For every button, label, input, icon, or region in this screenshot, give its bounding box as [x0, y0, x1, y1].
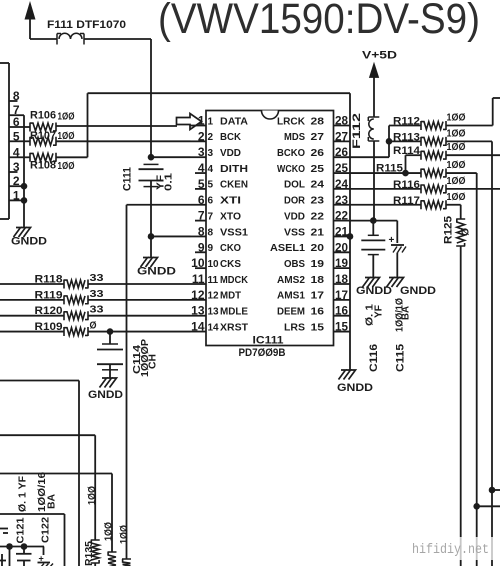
svg-text:R113: R113	[393, 131, 420, 143]
svg-text:3: 3	[198, 145, 205, 159]
svg-text:C116: C116	[368, 344, 380, 372]
svg-text:DEEM: DEEM	[277, 307, 305, 318]
svg-text:GNDD: GNDD	[11, 236, 47, 248]
svg-text:20: 20	[311, 243, 325, 254]
svg-text:XRST: XRST	[220, 322, 248, 333]
svg-text:24: 24	[335, 177, 348, 191]
svg-text:C121: C121	[16, 517, 27, 543]
svg-text:2: 2	[198, 129, 205, 143]
svg-text:16: 16	[335, 304, 348, 318]
svg-text:19: 19	[335, 256, 348, 270]
svg-text:GNDD: GNDD	[88, 389, 123, 401]
svg-text:16: 16	[311, 307, 325, 318]
svg-text:Ø. 1 YF: Ø. 1 YF	[18, 476, 29, 512]
svg-text:(VWV1590:DV-S9): (VWV1590:DV-S9)	[158, 0, 480, 43]
svg-text:14: 14	[208, 322, 220, 333]
svg-text:XTI: XTI	[220, 196, 241, 207]
svg-text:R125: R125	[443, 216, 455, 244]
svg-text:3: 3	[208, 148, 214, 159]
svg-text:WCKO: WCKO	[277, 164, 305, 175]
svg-text:DOL: DOL	[284, 180, 305, 191]
svg-text:27: 27	[335, 129, 348, 143]
svg-text:24: 24	[311, 180, 325, 191]
svg-text:13: 13	[191, 304, 205, 318]
svg-text:2: 2	[208, 132, 214, 143]
svg-text:21: 21	[311, 227, 325, 238]
svg-text:1ØØ: 1ØØ	[447, 160, 466, 171]
svg-text:BA: BA	[401, 306, 412, 320]
svg-text:XTO: XTO	[220, 211, 241, 222]
svg-text:5: 5	[198, 177, 205, 191]
svg-text:BA: BA	[47, 494, 58, 509]
svg-text:OBS: OBS	[284, 259, 305, 270]
svg-text:R108: R108	[30, 160, 56, 172]
svg-text:1ØØ: 1ØØ	[58, 161, 75, 172]
svg-text:27: 27	[311, 132, 325, 143]
svg-text:21: 21	[335, 224, 348, 238]
svg-text:CKS: CKS	[220, 259, 241, 270]
svg-text:25: 25	[311, 164, 325, 175]
svg-text:8: 8	[13, 89, 20, 103]
svg-text:20: 20	[335, 240, 348, 254]
svg-text:R115: R115	[376, 163, 403, 175]
svg-text:R118: R118	[35, 274, 63, 286]
svg-text:CH: CH	[148, 354, 159, 369]
svg-text:6: 6	[198, 193, 205, 207]
svg-text:1ØØ: 1ØØ	[58, 112, 75, 123]
svg-text:1ØØ: 1ØØ	[58, 131, 75, 142]
svg-text:1: 1	[13, 188, 20, 202]
svg-text:YF: YF	[374, 305, 385, 318]
svg-text:DATA: DATA	[220, 116, 248, 127]
svg-text:22: 22	[335, 209, 348, 223]
svg-text:17: 17	[335, 288, 348, 302]
svg-text:2: 2	[13, 174, 20, 188]
svg-text:VDD: VDD	[284, 211, 305, 222]
svg-text:9: 9	[198, 240, 205, 254]
svg-text:Ø: Ø	[90, 321, 97, 332]
svg-text:28: 28	[335, 114, 348, 128]
svg-text:23: 23	[311, 196, 325, 207]
svg-text:0.1: 0.1	[164, 172, 175, 191]
svg-text:BCKO: BCKO	[277, 148, 305, 159]
svg-text:12: 12	[191, 288, 205, 302]
svg-text:AMS1: AMS1	[277, 291, 305, 302]
svg-text:R117: R117	[393, 195, 420, 207]
svg-text:LRCK: LRCK	[277, 116, 306, 127]
svg-text:R116: R116	[393, 179, 420, 191]
svg-text:6: 6	[13, 115, 20, 129]
svg-text:R112: R112	[393, 116, 420, 128]
svg-text:CKEN: CKEN	[220, 180, 248, 191]
svg-text:GNDD: GNDD	[337, 382, 373, 394]
svg-text:DITH: DITH	[220, 164, 248, 175]
svg-text:33: 33	[90, 273, 105, 284]
svg-text:VDD: VDD	[220, 148, 241, 159]
svg-text:5: 5	[208, 180, 214, 191]
svg-text:10: 10	[191, 256, 205, 270]
svg-text:15: 15	[335, 320, 348, 334]
svg-text:1ØØ: 1ØØ	[447, 142, 466, 153]
svg-text:4: 4	[13, 145, 20, 159]
svg-text:5: 5	[13, 129, 20, 143]
svg-text:ASEL1: ASEL1	[270, 243, 305, 254]
svg-text:1ØØ: 1ØØ	[447, 192, 466, 203]
svg-text:33: 33	[90, 289, 105, 300]
svg-text:26: 26	[311, 148, 325, 159]
svg-text:BCK: BCK	[220, 132, 242, 143]
svg-text:MDT: MDT	[220, 291, 241, 302]
svg-text:12: 12	[208, 291, 220, 302]
svg-text:33: 33	[90, 305, 105, 316]
svg-text:3: 3	[13, 160, 20, 174]
svg-text:CKO: CKO	[220, 243, 241, 254]
svg-text:C111: C111	[122, 167, 134, 191]
svg-text:8: 8	[208, 227, 214, 238]
svg-text:10: 10	[208, 259, 220, 270]
svg-text:1ØØ: 1ØØ	[87, 486, 98, 505]
svg-text:VSS: VSS	[284, 227, 305, 238]
svg-text:22: 22	[311, 211, 325, 222]
svg-text:MDLE: MDLE	[220, 307, 248, 318]
svg-text:MDS: MDS	[284, 132, 305, 143]
svg-text:1ØØ: 1ØØ	[119, 525, 130, 544]
svg-text:15: 15	[311, 322, 325, 333]
svg-text:F112: F112	[351, 113, 363, 149]
svg-text:R120: R120	[35, 305, 63, 317]
svg-text:GNDD: GNDD	[400, 285, 436, 297]
svg-text:11: 11	[192, 272, 205, 286]
svg-text:18: 18	[335, 272, 348, 286]
svg-text:13: 13	[208, 307, 220, 318]
svg-text:26: 26	[335, 145, 348, 159]
svg-text:25: 25	[335, 161, 348, 175]
svg-text:V+5D: V+5D	[362, 50, 397, 62]
svg-text:DOR: DOR	[284, 196, 306, 207]
svg-text:19: 19	[311, 259, 325, 270]
svg-text:AMS2: AMS2	[277, 275, 305, 286]
svg-text:7: 7	[198, 209, 205, 223]
svg-text:R109: R109	[35, 321, 63, 333]
svg-text:4: 4	[198, 161, 205, 175]
svg-text:R107: R107	[30, 130, 56, 142]
svg-text:28: 28	[311, 116, 325, 127]
svg-text:MDCK: MDCK	[220, 275, 249, 286]
svg-text:1ØØ: 1ØØ	[447, 113, 466, 124]
svg-text:VSS1: VSS1	[220, 227, 248, 238]
svg-text:IC111: IC111	[253, 335, 284, 347]
svg-text:C115: C115	[395, 344, 407, 372]
svg-text:R119: R119	[35, 289, 63, 301]
svg-text:hifidiy.net: hifidiy.net	[412, 542, 489, 558]
svg-text:GNDD: GNDD	[137, 266, 176, 278]
svg-text:6: 6	[208, 196, 214, 207]
svg-text:1ØØ: 1ØØ	[447, 128, 466, 139]
svg-text:4: 4	[208, 164, 214, 175]
svg-text:Ø: Ø	[461, 228, 472, 236]
svg-text:11: 11	[208, 275, 219, 286]
svg-text:9: 9	[208, 243, 214, 254]
svg-text:C122: C122	[41, 517, 52, 543]
svg-text:R135: R135	[84, 541, 95, 566]
svg-text:8: 8	[198, 224, 205, 238]
svg-text:1ØØ: 1ØØ	[104, 522, 115, 541]
svg-text:1ØØ: 1ØØ	[447, 176, 466, 187]
svg-text:1: 1	[198, 114, 205, 128]
svg-text:LRS: LRS	[284, 322, 305, 333]
svg-text:R114: R114	[393, 145, 421, 157]
svg-text:14: 14	[191, 320, 205, 334]
svg-text:23: 23	[335, 193, 348, 207]
svg-text:R106: R106	[30, 110, 56, 122]
svg-text:18: 18	[311, 275, 325, 286]
svg-text:1: 1	[208, 116, 214, 127]
svg-text:17: 17	[311, 291, 325, 302]
svg-text:7: 7	[208, 211, 214, 222]
svg-text:PD7ØØ9B: PD7ØØ9B	[239, 347, 286, 359]
svg-text:F111 DTF1070: F111 DTF1070	[47, 19, 126, 31]
